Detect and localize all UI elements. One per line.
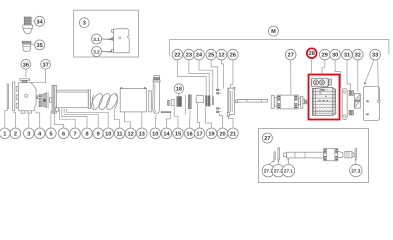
leader 37 xyxy=(30,70,45,83)
svg-text:32: 32 xyxy=(355,53,361,59)
callout circle 3b xyxy=(24,128,35,139)
callout circle 22 xyxy=(172,49,183,60)
leader 5 xyxy=(51,111,52,129)
callout circle 25 xyxy=(206,49,217,60)
callout circle 21 xyxy=(228,128,239,139)
shaft hub 2 xyxy=(303,99,305,104)
leader 10 second xyxy=(154,115,157,129)
leader 36 xyxy=(25,70,27,78)
shaft flange xyxy=(271,96,274,109)
box 27 detail xyxy=(259,129,369,183)
leader 24 xyxy=(199,60,213,97)
callout circle 3.2 xyxy=(92,47,112,57)
callout circle 12 top xyxy=(216,49,227,60)
callout circle 27.1 xyxy=(262,160,275,177)
callout circle 36 xyxy=(21,59,31,69)
leader 9 xyxy=(64,109,98,128)
box 3 xyxy=(74,10,139,57)
leader 3b xyxy=(28,112,30,128)
leader 19 xyxy=(206,107,212,128)
leader 6 xyxy=(55,113,64,128)
svg-text:15: 15 xyxy=(175,131,181,137)
leader 21 xyxy=(228,115,233,128)
strip part xyxy=(149,91,152,112)
svg-text:30: 30 xyxy=(332,53,338,59)
pin 27.3 xyxy=(355,149,356,158)
svg-text:12: 12 xyxy=(127,131,133,137)
small rect part 15 xyxy=(171,99,174,105)
motor body xyxy=(16,83,38,114)
svg-text:33: 33 xyxy=(372,53,378,59)
callout circle 34 xyxy=(33,16,45,26)
callout circle 4 xyxy=(34,128,45,139)
callout circle 26 xyxy=(228,49,239,60)
part 2 plate xyxy=(13,82,15,111)
pin 27.1a xyxy=(274,152,275,160)
M bracket line xyxy=(170,40,389,57)
pin 27.2 xyxy=(278,148,280,160)
callout circle 7 xyxy=(70,128,81,139)
part 35 cap xyxy=(22,41,31,51)
callout circle 28 with red ring xyxy=(307,48,317,58)
svg-text:27.3: 27.3 xyxy=(351,168,360,173)
leader 33 with arrow xyxy=(364,60,379,100)
svg-text:27.1: 27.1 xyxy=(284,169,293,174)
svg-text:25: 25 xyxy=(208,53,214,59)
callout circle 18 xyxy=(174,84,184,96)
red highlight rectangle xyxy=(309,75,340,120)
svg-text:26: 26 xyxy=(230,53,236,59)
callout circle 27.1 second xyxy=(282,158,294,177)
callout circle 27.2 xyxy=(272,160,284,177)
svg-text:14: 14 xyxy=(163,131,170,137)
callout circle 16 xyxy=(184,128,195,139)
callout circle 23 xyxy=(184,49,195,60)
leader 10 xyxy=(66,109,108,128)
leader 7 xyxy=(60,109,76,128)
svg-text:18: 18 xyxy=(176,87,182,93)
svg-text:5: 5 xyxy=(49,131,52,137)
callout circle 10 xyxy=(103,128,114,139)
small box part 17 xyxy=(196,96,203,103)
svg-text:2: 2 xyxy=(14,131,17,137)
callout circle 14 xyxy=(161,128,172,139)
valve plate part 21 xyxy=(227,87,238,116)
svg-text:10: 10 xyxy=(105,131,111,137)
callout circle 27.3 xyxy=(350,158,362,177)
splined block xyxy=(277,95,298,109)
leader 17 xyxy=(198,103,200,128)
svg-text:8: 8 xyxy=(85,131,88,137)
leader 23 xyxy=(189,60,209,96)
shaft in box 27 xyxy=(284,149,354,161)
callout circle 6 xyxy=(58,128,69,139)
callout circle 19 xyxy=(206,128,217,139)
leader 22 xyxy=(177,60,206,96)
leader 32 xyxy=(357,60,359,92)
svg-text:27.2: 27.2 xyxy=(274,169,283,174)
leader 12 top xyxy=(222,60,224,89)
callout circle 3.1 xyxy=(92,34,112,44)
part 1 thin plate xyxy=(7,84,8,109)
svg-text:3.2: 3.2 xyxy=(93,49,100,54)
svg-text:37: 37 xyxy=(42,62,48,68)
svg-text:3: 3 xyxy=(83,21,86,27)
coupling part 5 xyxy=(43,92,52,109)
leader 15 xyxy=(174,106,178,128)
svg-text:13: 13 xyxy=(139,131,145,137)
leader 27 xyxy=(290,60,292,94)
svg-text:16: 16 xyxy=(186,131,192,137)
svg-text:21: 21 xyxy=(230,131,236,137)
tiny bar part 14 xyxy=(168,100,170,105)
leader 20 xyxy=(219,114,222,129)
tall bar part 16 xyxy=(185,95,191,115)
svg-text:24: 24 xyxy=(196,53,203,59)
leader 16 xyxy=(189,110,192,128)
svg-text:10: 10 xyxy=(152,131,158,137)
callout circle 33 xyxy=(370,49,381,60)
svg-text:19: 19 xyxy=(208,131,214,137)
leader 11 xyxy=(114,109,119,128)
svg-text:3: 3 xyxy=(27,131,30,137)
barrel part 7 xyxy=(56,90,90,109)
callout circle 30 xyxy=(330,49,341,60)
callout circle 12 xyxy=(125,128,136,139)
svg-text:29: 29 xyxy=(322,53,328,59)
svg-text:34: 34 xyxy=(36,19,43,25)
leader 28 xyxy=(310,60,312,75)
svg-text:31: 31 xyxy=(344,53,350,59)
plate part 6 xyxy=(52,85,58,113)
callout circle 9 xyxy=(93,128,104,139)
shaft hub xyxy=(274,98,277,106)
part 32 spools xyxy=(354,94,360,109)
horizontal pin part xyxy=(161,112,171,113)
callout circle 24 xyxy=(194,49,205,60)
callout circle 20 xyxy=(217,128,228,139)
callout circle 17 xyxy=(194,128,205,139)
callout circle 5 xyxy=(46,128,57,139)
callout circle 31 xyxy=(342,49,353,60)
svg-text:36: 36 xyxy=(23,62,29,68)
box part 13 xyxy=(120,88,146,112)
callout circle 2 xyxy=(10,128,21,139)
svg-text:35: 35 xyxy=(36,43,42,49)
oval plate part 30 xyxy=(342,88,347,119)
leader 25 xyxy=(211,60,218,89)
shaft tip xyxy=(305,100,307,104)
shaft rod xyxy=(237,99,267,102)
screws part 4/5 xyxy=(39,95,41,107)
leader 1 xyxy=(5,109,8,128)
svg-text:23: 23 xyxy=(186,53,192,59)
auger part 9 xyxy=(89,92,119,111)
fitting on motor top xyxy=(20,79,30,83)
svg-text:27: 27 xyxy=(264,136,270,142)
screws part 20 xyxy=(217,89,222,113)
part 34 fitting xyxy=(23,17,33,34)
callout circle 29 xyxy=(320,49,331,60)
svg-text:17: 17 xyxy=(196,131,202,137)
svg-text:1: 1 xyxy=(3,131,6,137)
callout circle 15 xyxy=(173,128,184,139)
leader 30 xyxy=(335,60,341,88)
leader 2 xyxy=(14,111,16,128)
spring part 18 target xyxy=(177,97,182,107)
callout circle 32 xyxy=(353,49,364,60)
pump head block xyxy=(312,87,335,115)
callout circle 13 xyxy=(137,128,148,139)
svg-text:7: 7 xyxy=(74,131,77,137)
svg-text:6: 6 xyxy=(62,131,65,137)
callout circle 10 second xyxy=(150,128,161,139)
svg-text:27: 27 xyxy=(288,53,294,59)
leader 8 xyxy=(62,109,87,128)
svg-text:28: 28 xyxy=(309,51,315,57)
callout circle 35 xyxy=(31,40,44,50)
callout circle M xyxy=(268,26,278,36)
svg-text:12: 12 xyxy=(218,53,224,59)
screws part 31 xyxy=(349,91,353,115)
svg-text:9: 9 xyxy=(97,131,100,137)
svg-text:3.1: 3.1 xyxy=(93,37,100,42)
svg-text:M: M xyxy=(271,29,276,35)
bottle part 10 xyxy=(153,75,160,113)
leader 31 xyxy=(347,60,351,91)
callout circle 37 xyxy=(41,59,51,69)
callout circle 3 xyxy=(79,18,89,28)
shaft spacer xyxy=(298,98,300,105)
callout circle 11 xyxy=(114,128,125,139)
svg-text:20: 20 xyxy=(219,131,225,137)
callout circle 27 in box xyxy=(262,133,272,143)
pump head top box xyxy=(311,78,331,87)
svg-text:11: 11 xyxy=(117,131,123,137)
leader 14 xyxy=(167,113,171,128)
leader 13 xyxy=(141,112,143,128)
shaft disc 2 xyxy=(301,96,303,108)
callout circle 1 xyxy=(0,128,10,139)
svg-text:22: 22 xyxy=(174,53,180,59)
cover part 33 xyxy=(363,86,380,121)
leader 26 xyxy=(231,60,233,88)
callout circle 27 main xyxy=(285,49,296,60)
callout circle 8 xyxy=(82,128,93,139)
leader 4 xyxy=(36,111,40,128)
leader 29 xyxy=(322,60,325,74)
pressure switch in box 3 xyxy=(112,29,130,53)
leader 12 xyxy=(125,112,131,128)
discs part 19 xyxy=(206,96,214,106)
